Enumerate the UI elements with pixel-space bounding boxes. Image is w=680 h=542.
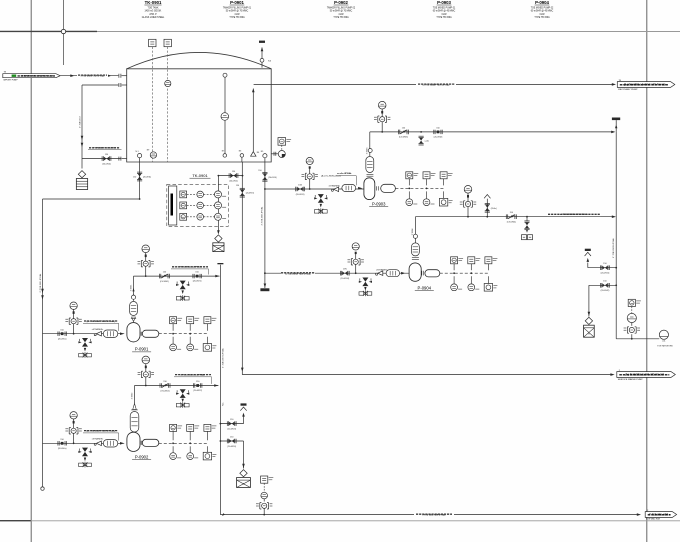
- drain funnel at tank outlet: [260, 284, 269, 292]
- svg-text:(20-0934): (20-0934): [340, 278, 349, 280]
- motor P-0902: [142, 439, 159, 446]
- motor signal column 2: [426, 179, 428, 186]
- svg-text:TOE/RUNDOWN LINE UFD-F09-004: TOE/RUNDOWN LINE UFD-F09-004: [21, 75, 53, 78]
- tank outlet drop line N5: [264, 158, 266, 288]
- svg-text:P-0901: P-0901: [135, 347, 149, 352]
- bridle standpipe: [169, 186, 177, 225]
- svg-text:xSTRAINERx: xSTRAINERx: [376, 268, 388, 271]
- right header vertical: [615, 132, 617, 339]
- svg-text:(CV-0901): (CV-0901): [160, 281, 169, 283]
- svg-text:xx-x0x-UP/GAL: xx-x0x-UP/GAL: [337, 172, 352, 175]
- discharge bellows P-0902: [130, 412, 139, 433]
- gate valve P-0903 discharge: [434, 128, 443, 139]
- bellows P-0904 suction: [386, 270, 400, 277]
- TOE network bubble: [659, 330, 668, 342]
- tank internal standpipe line: [224, 77, 226, 153]
- sump strainer under drain: [76, 171, 87, 190]
- motor signal column 3: [487, 264, 489, 270]
- tank TK-0901 shell: [127, 52, 272, 162]
- node match line circle: [63, 0, 65, 65]
- tank internal dashed gauge line 2: [167, 47, 169, 162]
- PI stack P-0902 discharge: [145, 385, 147, 387]
- svg-text:(20-0921): (20-0921): [193, 281, 202, 283]
- svg-text:(20-0914): (20-0914): [268, 177, 277, 179]
- recovered slops run to right edge: [242, 374, 611, 376]
- header label y=216: [547, 212, 601, 216]
- discharge header: [217, 263, 223, 264]
- motor signal column 2: [189, 432, 191, 441]
- bellows P-0903 suction: [342, 185, 356, 192]
- svg-text:IMPORT PUMP: IMPORT PUMP: [4, 80, 19, 82]
- svg-text:TANKER FILLING PUMP 02: TANKER FILLING PUMP 02: [327, 6, 356, 9]
- PI stack P-0904 suction: [355, 272, 357, 274]
- drain drop line x82: [81, 85, 83, 169]
- suction header horizontal run: [139, 198, 141, 200]
- title TK-0901: [142, 0, 165, 19]
- svg-text:x-x0x: x-x0x: [425, 141, 430, 143]
- motor signal dashed line P-0902: [159, 442, 208, 444]
- svg-text:GLASS LINED STEEL: GLASS LINED STEEL: [142, 16, 165, 19]
- svg-text:P-0901: P-0901: [230, 0, 244, 5]
- svg-text:TOE WML HDR: TOE WML HDR: [646, 518, 661, 520]
- gate valve P-0902 suction: [58, 439, 67, 450]
- suction branch P-0902: [43, 442, 125, 444]
- svg-text:xSTRAINERx: xSTRAINERx: [92, 328, 104, 331]
- feed pipe to tank: [60, 75, 118, 77]
- svg-text:(20-0942): (20-0942): [601, 290, 610, 292]
- motor signal dashed line P-0901: [159, 333, 208, 335]
- svg-text:4 kW: 4 kW: [234, 14, 240, 16]
- svg-text:(20-0931): (20-0931): [296, 194, 305, 196]
- svg-text:4"-TOE-0908-UP/GAL: 4"-TOE-0908-UP/GAL: [612, 237, 615, 258]
- suction branch P-0901: [43, 333, 125, 335]
- svg-text:(CV-0903): (CV-0903): [399, 137, 408, 139]
- minimum flow line to P-0904: [264, 272, 266, 274]
- discharge riser P-0901: [133, 276, 135, 301]
- svg-text:60 m3/HR @ 45 MWC: 60 m3/HR @ 45 MWC: [531, 11, 554, 13]
- suction header end cap: [41, 487, 44, 490]
- svg-text:3"-0901: 3"-0901: [130, 285, 132, 292]
- bridle drain: [217, 230, 220, 234]
- title P-0902: [327, 0, 356, 19]
- title P-0904: [531, 0, 554, 19]
- bellows P-0902 suction: [103, 440, 118, 447]
- P-0903 suction valve: [296, 184, 305, 195]
- svg-text:(20-0911): (20-0911): [143, 177, 151, 179]
- control valve P-0901 suction drain: [78, 338, 91, 347]
- nozzle branch with valve near tank bottom left: [82, 158, 121, 160]
- PI stack P-0901 suction: [73, 333, 75, 335]
- svg-text:(20-090x): (20-090x): [58, 338, 67, 340]
- tanker loading suction run: [254, 83, 613, 85]
- gauge circle on tank line: [165, 80, 171, 86]
- svg-text:(20-0932): (20-0932): [434, 137, 443, 139]
- svg-text:P-0904: P-0904: [418, 285, 432, 290]
- border top: [0, 31, 680, 33]
- svg-text:SERVICE WATER PUMP: SERVICE WATER PUMP: [618, 378, 643, 381]
- svg-text:TOE NETWORK: TOE NETWORK: [657, 346, 673, 348]
- bridle row 2 transmitter: [180, 202, 187, 209]
- off-page connector loading header: [645, 510, 676, 518]
- PI stack P-0904 discharge: [467, 216, 469, 218]
- P-0903 suction line: [264, 188, 266, 190]
- bridle row level gauge: [215, 202, 227, 209]
- svg-text:3 kW: 3 kW: [539, 14, 545, 16]
- pump P-0901 body: [127, 323, 140, 342]
- svg-text:(20-0922): (20-0922): [193, 390, 202, 392]
- svg-text:(To) TANKERS SLOPS UFD-F09-007: (To) TANKERS SLOPS UFD-F09-007: [625, 374, 665, 377]
- spec break T-bar: [612, 118, 620, 121]
- PI stack P-0903 suction: [309, 188, 311, 190]
- discharge run P-0902: [135, 385, 219, 387]
- gate valve P-0901 suction: [58, 329, 67, 340]
- svg-text:TYPE TB 150A: TYPE TB 150A: [436, 16, 452, 19]
- off-page connector: TOE rundown from UFD-F09-004: [3, 71, 60, 81]
- svg-text:ATM. P: ATM. P: [149, 13, 157, 16]
- motor P-0904: [425, 270, 440, 277]
- motor signal column 3: [443, 179, 445, 186]
- header vent branch right: [588, 267, 616, 269]
- instrument box LI above tank 1: [149, 39, 156, 46]
- instrument box LI above tank 2: [164, 39, 171, 46]
- suction header vertical x42.5: [42, 199, 44, 487]
- control valve to flare: [526, 216, 528, 218]
- motor signal column 1: [453, 264, 455, 270]
- motor signal column 1: [172, 432, 174, 441]
- svg-text:TOE MIXED PUMP 02: TOE MIXED PUMP 02: [531, 7, 554, 9]
- tank vent: [259, 41, 272, 68]
- bridle row 3 transmitter: [180, 213, 187, 220]
- bridle dashed enclosure: [167, 184, 229, 226]
- discharge riser P-0902: [134, 386, 136, 404]
- motor signal column 2: [189, 324, 191, 331]
- svg-text:P-0903: P-0903: [437, 0, 451, 5]
- svg-text:1400 m3 GEOM.: 1400 m3 GEOM.: [145, 11, 162, 13]
- border right: [646, 0, 648, 542]
- svg-text:TOE MIXED PUMP 01: TOE MIXED PUMP 01: [433, 7, 456, 9]
- discharge run P-0904: [415, 216, 612, 218]
- drain instrument column at loading header: [263, 514, 265, 516]
- border left: [30, 0, 32, 542]
- motor signal column 1: [172, 324, 174, 331]
- svg-text:4"-TOE-0907-UP/GAL: 4"-TOE-0907-UP/GAL: [222, 347, 225, 368]
- svg-text:150: 150: [133, 177, 136, 179]
- svg-text:(20-0913): (20-0913): [246, 193, 255, 195]
- svg-text:xSTRAINERx: xSTRAINERx: [92, 437, 104, 440]
- svg-text:4"-TOE-0903-IP/GAL: 4"-TOE-0903-IP/GAL: [261, 206, 264, 226]
- drain valve on discharge P-0903: [420, 131, 422, 133]
- svg-text:(To) TANKERS LOADING UFD-F09-0: (To) TANKERS LOADING UFD-F09-005: [624, 84, 666, 87]
- svg-text:N.C.: N.C.: [223, 402, 225, 406]
- bridle row gauge circle: [197, 191, 204, 198]
- border bottom: [0, 520, 680, 522]
- upper drain nozzle line y85: [82, 84, 118, 86]
- svg-text:(20-0x): (20-0x): [491, 208, 497, 210]
- motor signal column 2: [470, 264, 472, 270]
- discharge run P-0903: [370, 131, 614, 133]
- svg-text:P-0902: P-0902: [135, 454, 149, 459]
- svg-text:(A-COC-W0W-x0x-xL): (A-COC-W0W-x0x-xL): [321, 175, 341, 178]
- svg-text:P-0902: P-0902: [334, 0, 348, 5]
- header drain branch right: [589, 284, 616, 286]
- tank bottom nozzle N2: [223, 154, 227, 158]
- svg-text:15N: 15N: [343, 269, 347, 271]
- svg-text:50 m3/HR @ 70 MWC: 50 m3/HR @ 70 MWC: [330, 11, 353, 13]
- pump P-0902 body: [127, 432, 140, 451]
- svg-text:3 kW: 3 kW: [441, 14, 447, 16]
- svg-text:TYPE TB 150A: TYPE TB 150A: [229, 16, 245, 19]
- feed line label: [77, 73, 108, 78]
- P-0904 suction valve: [340, 269, 349, 280]
- control valve P-0903 suction drain: [314, 194, 327, 203]
- svg-text:TK-0901: TK-0901: [145, 0, 162, 5]
- bridle gauge line: [217, 176, 219, 232]
- motor P-0901: [142, 330, 159, 337]
- LSH circle: [278, 151, 285, 158]
- PI stack P-0901 discharge: [145, 275, 147, 277]
- instrument column right: [628, 299, 641, 306]
- check valve P-0901: [159, 272, 169, 279]
- discharge riser P-0904: [414, 217, 416, 243]
- header vent branch: [220, 423, 243, 425]
- svg-text:(20-0923): (20-0923): [227, 428, 236, 430]
- level instrument circle in tank: [221, 113, 229, 121]
- drain valve under nozzle N1: [139, 162, 141, 199]
- discharge run P-0901: [134, 275, 220, 277]
- PI stack P-0902 suction: [73, 442, 75, 444]
- svg-text:(20-0941): (20-0941): [601, 273, 610, 275]
- svg-text:(CV-0904): (CV-0904): [507, 222, 516, 224]
- motor signal dashed line P-0903: [395, 187, 443, 189]
- control valve P-0901 minflow: [176, 281, 189, 290]
- svg-text:3"-0904: 3"-0904: [412, 229, 414, 236]
- tank bottom nozzle N3: [240, 154, 244, 158]
- pump P-0904 body: [409, 263, 421, 281]
- title P-0901: [223, 0, 252, 19]
- control valve P-0902 minflow: [176, 389, 189, 398]
- svg-text:50 m3/HR @ 70 MWC: 50 m3/HR @ 70 MWC: [226, 11, 249, 13]
- title P-0903: [433, 0, 456, 19]
- control valve P-0902 suction drain: [78, 448, 91, 457]
- tank side nozzle to LSH: [271, 153, 278, 155]
- svg-text:2" TOE WML HDR x: 2" TOE WML HDR x: [649, 515, 671, 517]
- svg-text:2"-TOE-0917: 2"-TOE-0917: [80, 115, 82, 128]
- slops drain line from nozzle N3: [241, 162, 243, 375]
- gate valve P-0901 discharge: [193, 272, 202, 283]
- bridle row gauge circle: [197, 202, 204, 209]
- motor P-0903: [381, 184, 396, 192]
- motor signal column 3: [206, 324, 208, 331]
- tank internal dashed gauge line 1: [151, 47, 153, 162]
- svg-text:150: 150: [258, 170, 261, 172]
- PI stack P-0903 discharge: [381, 131, 383, 133]
- tank internal suction line: [252, 89, 254, 152]
- svg-text:TANKER FILLING PUMP 01: TANKER FILLING PUMP 01: [223, 6, 252, 9]
- discharge riser P-0903: [369, 132, 371, 156]
- svg-text:15N: 15N: [298, 184, 302, 186]
- control valve P-0904 suction drain: [359, 278, 372, 287]
- LAH box: [278, 138, 291, 146]
- bridle top valve to slops line: [218, 175, 242, 177]
- bridle row gauge circle: [197, 214, 204, 221]
- svg-text:60 m3/HR @ 45 MWC: 60 m3/HR @ 45 MWC: [433, 11, 456, 13]
- svg-text:150: 150: [236, 185, 239, 187]
- check valve P-0904 discharge: [506, 212, 516, 219]
- svg-text:(CV-0902): (CV-0902): [160, 390, 169, 392]
- svg-text:6"-TOE-0901-IP/GAL: 6"-TOE-0901-IP/GAL: [39, 273, 42, 293]
- svg-text:(20-0910): (20-0910): [102, 163, 111, 165]
- svg-text:TYPE TB 150A: TYPE TB 150A: [333, 16, 349, 19]
- svg-text:TOE TANK: TOE TANK: [147, 6, 159, 9]
- svg-text:(20-0912): (20-0912): [229, 180, 238, 182]
- svg-text:(20-0924): (20-0924): [227, 446, 236, 448]
- svg-text:P-0903: P-0903: [372, 201, 386, 206]
- internal vortex breaker: [251, 152, 256, 157]
- gate valve P-0902 discharge: [193, 381, 202, 392]
- tank bottom nozzle N1: [138, 154, 142, 158]
- svg-text:RECOVERY PUMP: RECOVERY PUMP: [618, 89, 638, 91]
- bridle row 1 transmitter: [180, 191, 187, 198]
- pump P-0903 body: [364, 178, 375, 200]
- check valve P-0902: [160, 381, 170, 388]
- motor signal column 1: [408, 179, 410, 186]
- bridle row level gauge: [215, 191, 227, 198]
- svg-text:(20-090x): (20-090x): [58, 448, 67, 450]
- svg-text:3"-0902: 3"-0902: [131, 393, 133, 400]
- loading header bottom run: [221, 513, 225, 517]
- off-page connector recovered slops: [617, 370, 676, 381]
- svg-text:TYPE TB 150A: TYPE TB 150A: [534, 16, 550, 19]
- tank bottom gauge circle: [150, 152, 156, 158]
- bridle level black bar: [171, 194, 174, 216]
- vent valve P-0904 discharge: [486, 216, 488, 218]
- tank bottom nozzle N5: [263, 154, 267, 158]
- bridle row level gauge: [215, 213, 227, 220]
- header drain branch: [220, 440, 243, 442]
- flange ticks at tank wall: [118, 74, 120, 78]
- check valve P-0903: [398, 127, 408, 134]
- discharge bellows P-0901: [130, 302, 138, 316]
- off-page connector to tankers loading: [617, 80, 675, 91]
- svg-text:TK-0901: TK-0901: [192, 173, 208, 178]
- motor signal dashed line P-0904: [440, 272, 489, 274]
- svg-text:4 kW: 4 kW: [338, 14, 344, 16]
- bottom run to TOE network: [616, 338, 659, 340]
- motor signal column 3: [206, 432, 208, 441]
- svg-text:P-0904: P-0904: [535, 0, 549, 5]
- bellows P-0901 suction: [103, 330, 118, 337]
